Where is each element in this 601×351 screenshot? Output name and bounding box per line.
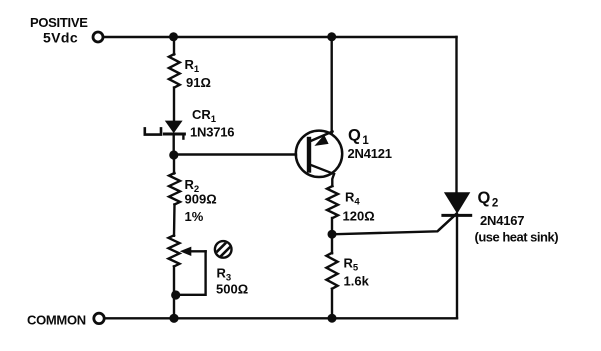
wire R3 wiper loop bbox=[176, 251, 206, 294]
label R3 500ohm bbox=[216, 266, 248, 297]
svg-text:1%: 1% bbox=[185, 209, 204, 224]
screwdriver adjust symbol for R3 bbox=[214, 240, 233, 259]
zener diode CR1 bbox=[145, 121, 185, 139]
terminal POSITIVE input bbox=[93, 32, 103, 42]
svg-text:1.6k: 1.6k bbox=[344, 274, 370, 289]
svg-text:909Ω: 909Ω bbox=[185, 192, 217, 207]
svg-text:POSITIVE: POSITIVE bbox=[30, 15, 88, 30]
wire top rail bbox=[104, 36, 457, 38]
label COMMON bbox=[27, 313, 86, 328]
svg-text:91Ω: 91Ω bbox=[186, 75, 211, 90]
wire Q1 emitter to top rail bbox=[331, 37, 333, 133]
wire R2 to R3 bbox=[173, 205, 176, 236]
node top rail / R1 bbox=[169, 32, 178, 41]
label R1 91ohm bbox=[185, 57, 211, 90]
label R5 1.6k bbox=[344, 256, 370, 289]
wire junction to R5 bbox=[331, 235, 333, 254]
transistor Q1 (PNP 2N4121) bbox=[296, 131, 342, 186]
wire R4 to junction bbox=[331, 218, 333, 235]
svg-text:(use heat sink): (use heat sink) bbox=[475, 230, 559, 245]
svg-text:2N4121: 2N4121 bbox=[348, 146, 392, 161]
label R4 120ohm bbox=[343, 190, 375, 224]
node R4 / R5 / Q2 gate bbox=[328, 230, 337, 239]
node bottom rail / R5 bbox=[328, 314, 337, 323]
label CR1 1N3716 bbox=[190, 107, 234, 140]
terminal COMMON bbox=[94, 313, 104, 323]
wiper arrow of R3 bbox=[180, 247, 206, 256]
wire R5 to bottom rail bbox=[331, 289, 333, 319]
wire base node to R2 bbox=[173, 155, 175, 174]
label Q2 2N4167 (use heat sink) bbox=[475, 189, 559, 245]
wire R1 to CR1 bbox=[173, 88, 175, 123]
wire base node to Q1 base bbox=[174, 153, 296, 155]
wire R3 to bottom rail bbox=[173, 266, 175, 318]
potentiometer R3 bbox=[169, 235, 180, 266]
label POSITIVE 5Vdc bbox=[30, 15, 88, 46]
label R2 909ohm 1% bbox=[185, 177, 217, 224]
svg-text:5Vdc: 5Vdc bbox=[43, 30, 78, 46]
wire CR1 to base node bbox=[172, 134, 174, 155]
resistor R2 bbox=[169, 173, 180, 205]
svg-text:120Ω: 120Ω bbox=[343, 209, 375, 224]
wire Q2 cathode to bottom rail bbox=[456, 215, 458, 318]
svg-text:1N3716: 1N3716 bbox=[190, 125, 234, 140]
wire right column top (rail corner down to Q2 anode) bbox=[455, 37, 457, 194]
wire rail to R1 bbox=[173, 37, 175, 55]
node CR1 / R2 / Q1 base bbox=[169, 150, 178, 159]
node top rail / Q1 emitter bbox=[327, 32, 336, 41]
resistor R5 bbox=[326, 253, 337, 289]
wire bottom rail bbox=[105, 317, 458, 319]
node bottom rail / R3 bbox=[169, 314, 178, 323]
node R3 wiper junction bbox=[171, 290, 180, 299]
wire gate of Q2 bbox=[332, 214, 456, 235]
resistor R1 bbox=[169, 54, 180, 88]
svg-text:500Ω: 500Ω bbox=[216, 282, 248, 297]
svg-text:COMMON: COMMON bbox=[27, 313, 86, 328]
resistor R4 bbox=[327, 186, 338, 218]
label Q1 2N4121 bbox=[348, 127, 392, 162]
thyristor Q2 bbox=[439, 192, 470, 229]
svg-text:2N4167: 2N4167 bbox=[480, 213, 524, 228]
